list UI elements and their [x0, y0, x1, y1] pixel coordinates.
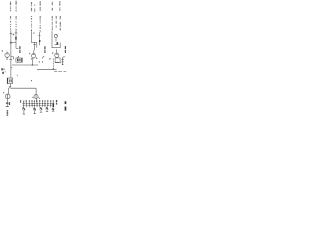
wire from U3 bottom — [9, 84, 11, 95]
corner mark cell2 — [36, 57, 37, 58]
node label text column 3A — [39, 1, 41, 32]
transistor Q3 — [55, 53, 59, 57]
node label text column 1B — [15, 1, 17, 31]
tick right of DS1 — [38, 97, 40, 98]
junction blob cell3 — [57, 42, 59, 44]
emitter marks under Q2 — [31, 58, 33, 60]
node blob on W6 — [39, 40, 40, 42]
corner stub of W2 — [16, 47, 18, 49]
junction node 5 — [52, 108, 54, 110]
node label text column 4C — [59, 16, 61, 31]
node label text column 2 — [31, 2, 33, 28]
transistor Q2 collector lead — [33, 50, 35, 54]
wire H3 — [52, 47, 61, 49]
arrow near Q3 — [52, 52, 53, 54]
dot above bus D — [31, 80, 32, 81]
dashed rail C — [54, 70, 66, 72]
box U2 corner tick — [59, 62, 61, 63]
tick on W5 — [33, 43, 35, 45]
plate dash on W6 — [38, 34, 40, 36]
crystal Y1 inner bar — [7, 94, 9, 98]
junction stub H y44.6 — [55, 44, 59, 46]
wire from bus D down — [35, 88, 37, 94]
transistor Q2 base bar — [33, 54, 35, 56]
label column cell2 — [42, 46, 46, 58]
arrow mark left — [3, 92, 4, 94]
RC branch 3 — [26, 100, 28, 107]
transistor Q1 base bar — [6, 53, 8, 55]
end blob of W9 — [62, 64, 63, 65]
wire W6 vertical x39.7 — [39, 32, 41, 45]
junction node 4 — [46, 107, 49, 110]
ground stem 2 — [34, 110, 36, 113]
arrowhead on W3 — [31, 30, 32, 32]
RC branch 1 — [20, 100, 21, 103]
RC branch 10 — [44, 100, 46, 107]
RC branch 9 — [42, 100, 44, 107]
RC branch 11 — [47, 100, 49, 107]
box U2 — [55, 58, 60, 62]
capacitor C9 plates — [6, 103, 8, 105]
net label column right — [56, 100, 57, 105]
ground stem 4 — [46, 110, 48, 112]
node label text column 3B — [51, 2, 53, 30]
junction node 1 — [22, 107, 25, 110]
RC branch 5 — [31, 100, 33, 108]
plate dash on W1 lower — [10, 42, 12, 44]
ground dashes under Q1 — [6, 57, 8, 59]
arrow near Q2 — [29, 53, 30, 55]
RC branch 6 — [33, 100, 35, 107]
transistor Q3 collector lead — [56, 49, 58, 53]
ground stem 5 — [52, 110, 54, 111]
transistor Q2 emitter lead — [31, 60, 33, 65]
RC branch 7 — [36, 100, 38, 107]
transistor Q1 lead up — [6, 52, 8, 53]
node label text column 4B — [55, 16, 57, 28]
box U3 inner glyphs — [8, 79, 11, 82]
wire below Y1 — [6, 99, 8, 104]
wire W7 vertical x52 — [51, 31, 53, 48]
wire H2 — [31, 41, 37, 43]
ground stem 1 — [23, 110, 25, 114]
plate dash on W2 — [15, 32, 17, 34]
value label near W3 — [33, 32, 34, 33]
junction on bus B — [53, 68, 54, 69]
RC branch 2 — [23, 101, 25, 108]
wire W1 vertical x10.9 — [10, 30, 12, 78]
RC branch 12 — [50, 100, 52, 107]
stub above bus B second — [42, 61, 44, 63]
RC branch 13 dark — [53, 100, 55, 107]
stub on W1 lower — [11, 66, 12, 68]
bus A — [12, 64, 38, 66]
dot node — [17, 75, 18, 76]
bus D — [10, 87, 36, 89]
stub on W1 — [9, 59, 12, 61]
dark label under C9 — [6, 110, 8, 116]
junction node 2 — [33, 108, 36, 111]
lamp DS1 inner bar — [35, 95, 37, 98]
wire H1 connecting — [10, 41, 16, 43]
plate dash on W1 — [10, 32, 13, 34]
dark node on wire W2 — [15, 37, 17, 40]
box U1 inner glyphs — [17, 59, 19, 62]
wire W4 — [36, 42, 38, 47]
RC branch 4 — [28, 100, 30, 107]
transistor Q3 base bar — [56, 53, 58, 55]
stub above bus B — [38, 61, 40, 63]
small glyph left — [2, 72, 4, 74]
wire W9 with cross ticks — [61, 58, 63, 65]
lamp DS1 circle — [34, 94, 38, 98]
tick left of DS1 — [32, 96, 34, 99]
label near Q1 — [2, 50, 3, 51]
bus B — [37, 68, 57, 70]
corner mark cell1 — [11, 57, 13, 60]
node label text column 4A — [59, 1, 61, 10]
wire W3 from arrow — [30, 32, 32, 43]
inductor L4 lead down — [55, 38, 57, 42]
faint marks column x34.8 — [33, 5, 36, 13]
RC branch 8 — [39, 100, 41, 107]
transistor Q1 — [5, 53, 9, 57]
label column cell1 — [17, 46, 21, 58]
transistor Q3 emitter lead — [53, 58, 55, 69]
transistor Q2 — [31, 54, 35, 58]
emitter mark under Q3 — [49, 58, 51, 60]
label right of C9 — [9, 102, 10, 105]
junction node 3 — [40, 107, 43, 110]
label column cell3 — [62, 46, 66, 58]
box U3 thick left edge — [6, 78, 9, 84]
value label near W2 — [13, 34, 14, 35]
wire W8 — [59, 43, 61, 48]
figure caption FIG — [65, 101, 67, 110]
junction on bus A — [32, 64, 33, 65]
inductor L4 — [54, 34, 57, 37]
ground stem 3 — [40, 110, 42, 113]
wire W5 — [34, 42, 36, 50]
wire below DS1 — [35, 99, 37, 103]
node label text column 1A — [10, 2, 12, 30]
wire W2 vertical x16 — [15, 31, 17, 49]
box U1 — [16, 58, 23, 62]
inductor L4 curl — [55, 34, 57, 35]
ref label 45 — [1, 68, 3, 70]
box U3 — [7, 78, 12, 84]
crystal Y1 circle — [5, 94, 10, 99]
